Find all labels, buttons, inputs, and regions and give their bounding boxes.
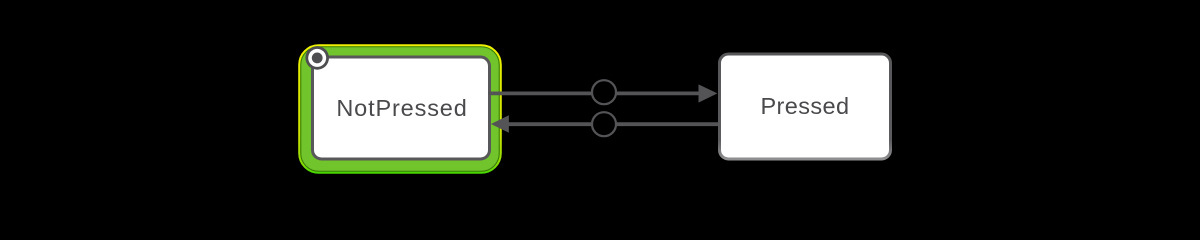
arrowhead into Pressed xyxy=(699,84,718,102)
initial state marker (entry dot) xyxy=(305,46,329,70)
wire: transition NotPressed -> Pressed xyxy=(488,92,704,96)
svg-text:Pressed: Pressed xyxy=(760,93,849,119)
selection highlight outer bright stroke xyxy=(299,45,501,173)
transition condition node (bottom circle) xyxy=(592,112,616,136)
state NotPressed selection highlight (green) xyxy=(301,47,500,172)
state NotPressed box xyxy=(313,57,490,159)
transition condition node (top circle) xyxy=(592,80,616,104)
arrowhead into NotPressed xyxy=(491,115,509,133)
wire: transition Pressed -> NotPressed xyxy=(506,122,719,126)
svg-text:NotPressed: NotPressed xyxy=(336,95,467,121)
state Pressed box xyxy=(720,54,891,159)
